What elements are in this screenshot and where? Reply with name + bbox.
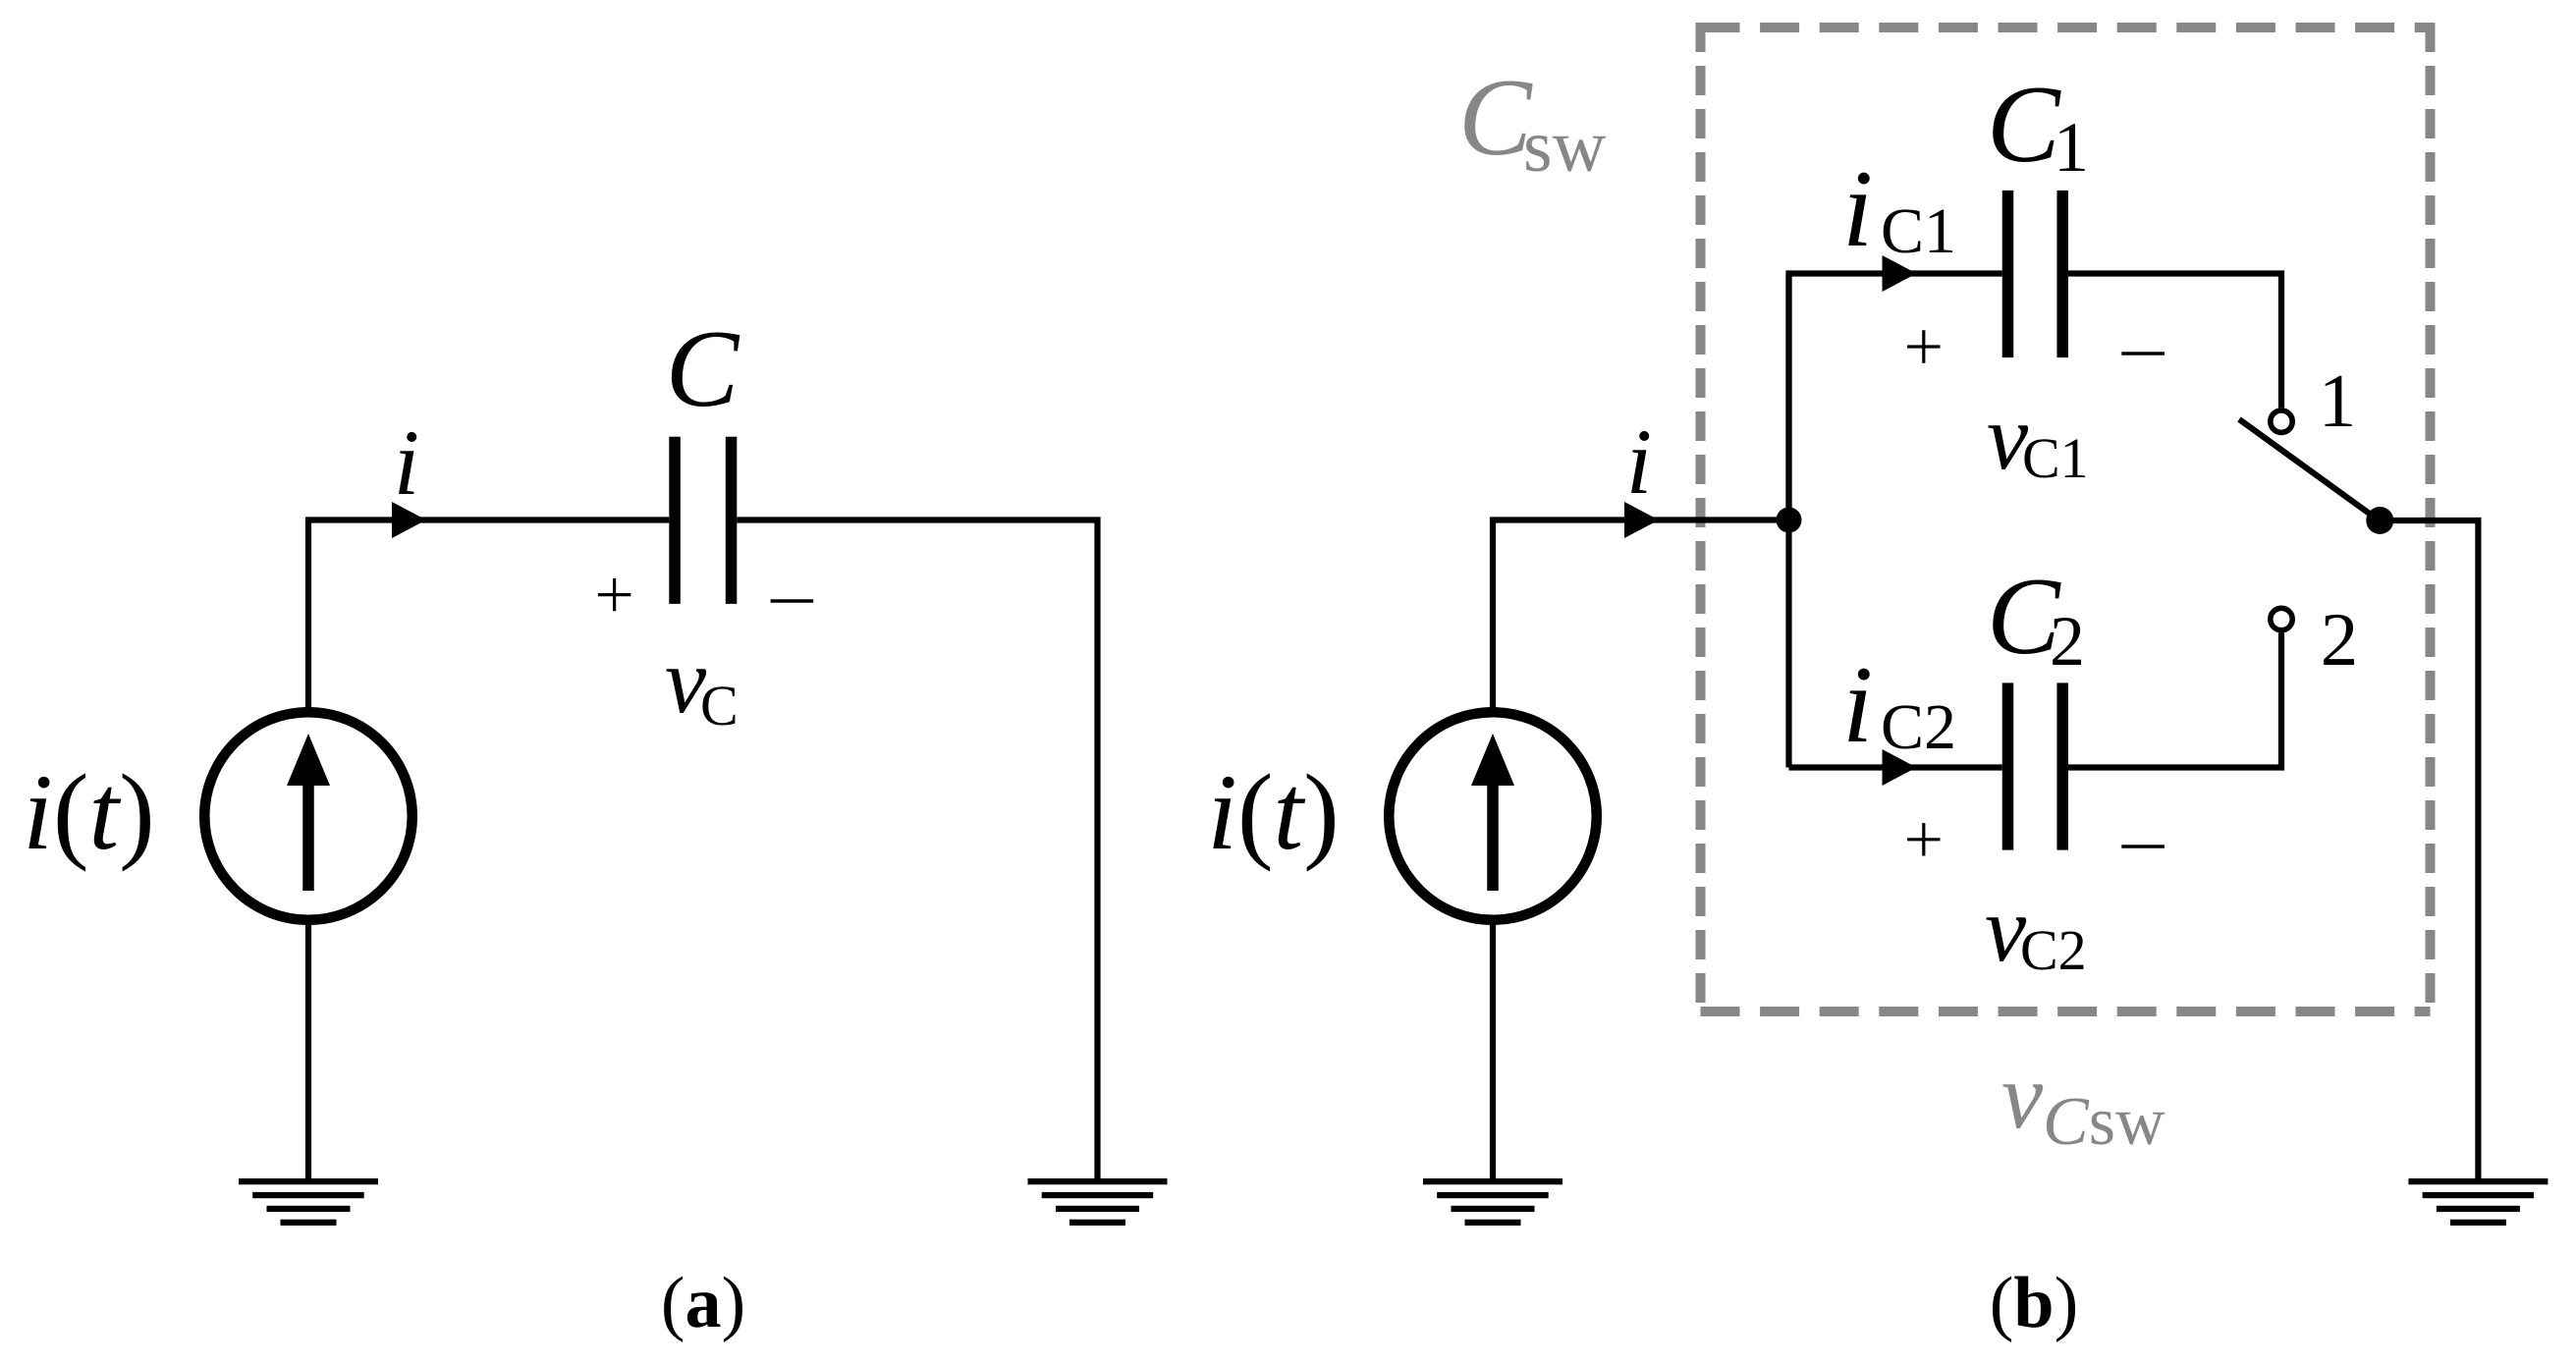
current source circle i(t) of circuit a — [204, 712, 412, 920]
svg-text:1: 1 — [2054, 108, 2089, 187]
ground symbol bottom-right of circuit a — [1028, 1178, 1168, 1226]
wire: below current source of circuit b — [1490, 921, 1496, 1178]
current arrow i on top wire of circuit a — [392, 502, 426, 538]
current source arrow of circuit a — [302, 781, 314, 891]
minus sign at capacitor C — [771, 599, 814, 602]
plus sign at C2 — [1907, 823, 1940, 855]
svg-text:i: i — [1842, 644, 1873, 766]
ground symbol below source of circuit b — [1423, 1178, 1562, 1226]
svg-text:i(t): i(t) — [23, 752, 154, 872]
capacitor C1 left plate — [2002, 191, 2014, 357]
minus sign at C1 — [2121, 352, 2165, 355]
capacitor C right plate — [726, 437, 738, 604]
svg-text:i: i — [1842, 148, 1873, 270]
dashed box Csw right edge — [2426, 23, 2436, 1016]
minus sign at C2 — [2121, 845, 2165, 847]
wire: below current source i(t) of circuit a — [305, 921, 311, 1178]
capacitor C1 right plate — [2056, 191, 2068, 357]
switch lever — [2239, 419, 2380, 521]
ground symbol bottom-right of circuit b — [2408, 1178, 2548, 1226]
svg-text:i(t): i(t) — [1207, 752, 1339, 872]
svg-text:C: C — [700, 674, 739, 737]
svg-text:C2: C2 — [1881, 691, 1956, 763]
svg-text:C: C — [1458, 57, 1533, 179]
capacitor C left plate — [669, 437, 681, 604]
svg-text:i: i — [394, 410, 419, 515]
wire: left loop top-left corner of circuit a — [308, 520, 669, 710]
current source circle i(t) of circuit b — [1389, 712, 1597, 920]
svg-text:Csw: Csw — [2043, 1084, 2165, 1160]
svg-text:2: 2 — [2050, 602, 2085, 681]
switch contact 2 open circle — [2271, 608, 2292, 629]
current arrow iC2 — [1883, 749, 1917, 786]
wire: from pole to right rail and down to ground — [2380, 520, 2478, 1178]
svg-text:C: C — [1987, 64, 2061, 186]
svg-text:C1: C1 — [1881, 195, 1956, 267]
wire: top right segment and right drop of circuit a — [737, 520, 1097, 1179]
wire: bottom branch right segment from C2 up to contact 2 — [2068, 633, 2281, 768]
dashed box Csw bottom edge — [1701, 1007, 2431, 1016]
switch pole dot — [2366, 507, 2393, 534]
svg-text:C: C — [666, 308, 740, 430]
svg-text:(a): (a) — [661, 1263, 745, 1343]
svg-text:sw: sw — [1523, 105, 1607, 188]
svg-text:i: i — [1626, 409, 1652, 514]
dashed box Csw top edge — [1701, 23, 2431, 32]
wire: top branch right segment from C1 down to contact 1 — [2068, 274, 2281, 409]
svg-text:(b): (b) — [1990, 1263, 2078, 1343]
current arrow i on feed wire of circuit b — [1624, 502, 1659, 538]
svg-text:1: 1 — [2319, 358, 2357, 443]
wire: from source up and right to node, circuit b — [1493, 520, 1789, 710]
node A junction dot — [1777, 508, 1802, 533]
svg-text:v: v — [2001, 1044, 2044, 1148]
current source arrow of circuit b — [1487, 781, 1499, 891]
dashed box Csw left edge — [1696, 23, 1706, 1016]
svg-text:2: 2 — [2321, 597, 2359, 682]
ground symbol bottom-left of circuit a — [239, 1178, 378, 1226]
switch contact 1 open circle — [2271, 410, 2292, 432]
wire: node vertical joining both branches — [1785, 274, 1791, 768]
svg-text:C1: C1 — [2022, 426, 2089, 490]
plus sign at C1 — [1907, 330, 1940, 362]
plus sign at capacitor C — [598, 578, 630, 611]
capacitor C2 left plate — [2002, 682, 2014, 849]
wire: top branch left segment to C1 — [1789, 274, 2002, 520]
svg-text:C2: C2 — [2020, 918, 2087, 982]
capacitor C2 right plate — [2056, 682, 2068, 849]
wire: bottom branch left segment to C2 — [1789, 764, 2002, 770]
current arrow iC1 — [1883, 255, 1917, 292]
